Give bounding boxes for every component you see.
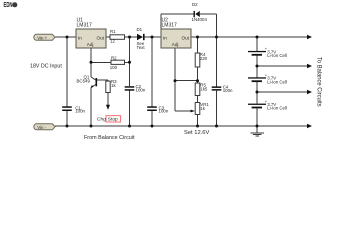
svg-text:Adj: Adj (87, 42, 94, 47)
svg-text:100n: 100n (75, 109, 85, 114)
svg-text:In: In (78, 35, 82, 40)
svg-text:Li-Ion Cell: Li-Ion Cell (267, 53, 287, 58)
svg-text:D1: D1 (137, 27, 143, 32)
svg-text:Li-Ion Cell: Li-Ion Cell (267, 106, 287, 111)
svg-text:Chg: Chg (97, 116, 106, 122)
svg-text:Li-Ion Cell: Li-Ion Cell (267, 79, 287, 84)
svg-text:1k: 1k (111, 83, 116, 88)
svg-text:Adj: Adj (172, 42, 179, 47)
svg-text:1k: 1k (200, 106, 205, 111)
svg-text:EDN: EDN (4, 2, 13, 9)
svg-text:LM317: LM317 (162, 23, 178, 29)
svg-text:Vin +: Vin + (37, 35, 47, 40)
svg-text:220: 220 (200, 56, 208, 61)
svg-text:1N4004: 1N4004 (192, 17, 208, 22)
svg-text:100n: 100n (223, 88, 233, 93)
svg-text:R2: R2 (111, 55, 117, 60)
svg-text:12: 12 (110, 39, 115, 44)
svg-text:In: In (163, 35, 167, 40)
svg-text:100n: 100n (159, 109, 169, 114)
svg-text:Out: Out (182, 35, 190, 40)
svg-text:Set 12.6V: Set 12.6V (184, 130, 210, 136)
svg-text:From Balance Circuit: From Balance Circuit (84, 135, 135, 141)
svg-text:Stop: Stop (108, 116, 118, 122)
svg-text:To Balance Circuits: To Balance Circuits (316, 57, 322, 107)
svg-text:18V DC Input: 18V DC Input (30, 63, 62, 69)
svg-text:1k5: 1k5 (200, 87, 208, 92)
svg-text:BC549: BC549 (77, 78, 91, 83)
svg-text:100n: 100n (136, 87, 146, 92)
svg-text:D2: D2 (192, 2, 198, 7)
svg-text:R1: R1 (110, 29, 116, 34)
svg-text:Vin -: Vin - (37, 125, 46, 130)
svg-text:Out: Out (97, 35, 105, 40)
svg-text:100: 100 (110, 65, 118, 70)
svg-text:Text: Text (137, 45, 146, 50)
svg-text:LM317: LM317 (77, 23, 93, 29)
